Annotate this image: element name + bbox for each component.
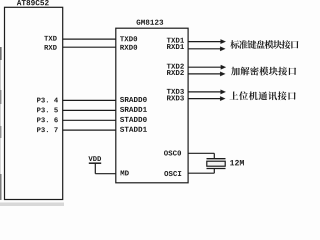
U2 pin label OSC0 [164,150,181,155]
U1 pin label TXD [44,36,56,41]
IC U2 box GM8123 [116,28,188,183]
IC U2 name label GM8123 [136,20,163,25]
wire P3.6 to STADD0 [63,119,116,121]
power symbol VDD bar [89,162,101,164]
U1 pin label P3.5 [37,107,58,112]
arrow RXD1 out [188,47,225,51]
U1 pin label P3.6 [37,117,58,122]
wire crystal bottom drop [213,169,215,174]
wire VDD to MD pin [95,173,116,175]
interface label: standard keyboard module [230,40,298,49]
U2 pin label TXD3 [167,89,184,94]
U2 pin label MD [121,171,129,176]
interface label: host communication [230,91,296,100]
U2 pin label TXD1 [167,38,184,43]
power symbol VDD label [88,156,101,161]
wire OSC0 to crystal [188,152,214,154]
wire VDD drop [94,163,96,174]
arrow RXD3 out [188,96,225,100]
U2 pin label SRADD1 [120,107,147,112]
wire TXD to TXD0 [63,38,116,40]
wire RXD to RXD0 [63,46,116,48]
U2 pin label RXD3 [167,95,184,100]
IC U1 box AT89C52 [5,7,63,199]
U1 pin label RXD [45,45,57,50]
U1 pin label P3.4 [37,98,58,103]
U2 pin label RXD1 [167,44,184,49]
wire crystal to OSCI [188,172,214,174]
arrow TXD2 out [188,65,226,69]
arrow TXD1 out [188,39,226,43]
U2 pin label OSCI [164,171,181,176]
interface label: encryption module [231,67,296,76]
U2 pin label STADD1 [120,127,147,132]
wire P3.5 to SRADD1 [63,109,116,111]
wire P3.4 to SRADD0 [63,99,116,101]
U2 pin label SRADD0 [120,97,147,102]
U2 pin label RXD2 [167,70,184,75]
IC U1 name label AT89C52 [17,0,49,5]
wire P3.7 to STADD1 [63,129,116,131]
U2 pin label RXD0 [120,45,137,50]
U1 pin label P3.7 [37,127,58,132]
crystal value label 12M [230,160,244,165]
scan artifact smudges on left and bottom edges [0,47,64,206]
arrow RXD2 out [188,72,225,76]
U2 pin label STADD0 [120,117,147,122]
arrow TXD3 out [188,90,226,94]
U2 pin label TXD0 [120,36,137,41]
wire crystal top drop [213,153,215,158]
crystal X1 12M [207,159,226,169]
U2 pin label TXD2 [167,64,184,69]
